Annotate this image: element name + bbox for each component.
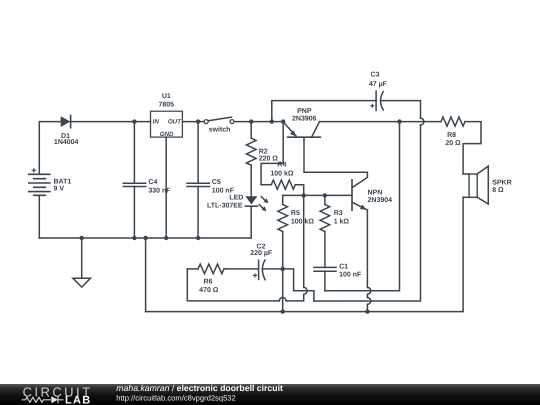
svg-text:BAT1: BAT1 bbox=[54, 178, 72, 185]
resistor R6 bbox=[187, 264, 258, 274]
resistor R5 bbox=[278, 195, 288, 311]
svg-text:SPKR: SPKR bbox=[492, 179, 511, 186]
wire ground rail bbox=[39, 237, 251, 239]
svg-text:PNP: PNP bbox=[297, 108, 312, 115]
switch SW1 bbox=[204, 117, 234, 124]
svg-text:C1: C1 bbox=[339, 263, 348, 270]
node R3 top junction bbox=[323, 193, 327, 197]
capacitor C5 bbox=[187, 122, 209, 238]
resistor R3 bbox=[320, 195, 330, 267]
svg-text:C3: C3 bbox=[371, 72, 380, 79]
svg-text:switch: switch bbox=[209, 126, 231, 134]
resistor R4 bbox=[261, 180, 304, 195]
wire bottom rail bbox=[146, 311, 464, 313]
svg-text:100 kΩ: 100 kΩ bbox=[291, 218, 315, 226]
wire PNP collector rail right bbox=[320, 121, 442, 123]
resistor R2 bbox=[246, 122, 256, 197]
regulator U1 7805 box bbox=[151, 111, 183, 138]
logo resistor glyph bbox=[22, 396, 64, 403]
wire PNP base to NPN collector bbox=[304, 137, 367, 188]
svg-text:R3: R3 bbox=[334, 210, 343, 217]
speaker SPKR bbox=[463, 166, 488, 204]
battery BAT1 bbox=[29, 168, 50, 238]
diode D1 bbox=[61, 116, 71, 128]
resistor R8 bbox=[441, 117, 465, 126]
svg-text:100 kΩ: 100 kΩ bbox=[270, 170, 294, 178]
node C4 bottom junction bbox=[132, 236, 136, 240]
svg-text:maha.kamran / electronic doorb: maha.kamran / electronic doorbell circui… bbox=[116, 383, 283, 393]
svg-text:9 V: 9 V bbox=[54, 186, 65, 193]
svg-text:8 Ω: 8 Ω bbox=[492, 187, 504, 194]
wire U1 GND to ground rail bbox=[165, 137, 167, 238]
node C2 R5 junction bbox=[281, 267, 285, 271]
node collector rail junction bbox=[397, 119, 401, 123]
svg-text:330 nF: 330 nF bbox=[148, 187, 171, 194]
svg-text:C5: C5 bbox=[212, 179, 221, 186]
node NPN emitter junction bbox=[365, 309, 369, 313]
wire C1 bottom to collector rail riser bbox=[325, 122, 400, 291]
capacitor C3 polarized bbox=[370, 90, 384, 111]
svg-text:C4: C4 bbox=[148, 179, 157, 186]
wire NPN base junction line bbox=[283, 194, 352, 196]
svg-text:220 Ω: 220 Ω bbox=[259, 155, 279, 162]
svg-text:100 nF: 100 nF bbox=[212, 187, 235, 194]
transistor Q2 NPN 2N3904 bbox=[352, 180, 371, 312]
capacitor C1 bbox=[314, 267, 336, 290]
node C3 branch junction bbox=[270, 119, 274, 123]
svg-text:R2: R2 bbox=[259, 148, 268, 155]
node riser junction bbox=[143, 236, 147, 240]
capacitor C4 bbox=[123, 122, 145, 238]
LED D2 LTL-307EE bbox=[245, 196, 268, 238]
wire D1 to U1 IN bbox=[71, 121, 151, 123]
wire R4 branch bbox=[261, 122, 283, 185]
svg-text:220 µF: 220 µF bbox=[250, 250, 273, 257]
svg-text:47 µF: 47 µF bbox=[369, 81, 388, 88]
svg-text:IN: IN bbox=[153, 119, 160, 126]
wire ground rail to bottom rail riser bbox=[145, 238, 147, 312]
svg-text:OUT: OUT bbox=[168, 119, 182, 126]
svg-text:2N3904: 2N3904 bbox=[368, 197, 393, 204]
wire C3 right to vertical with hop over top rail bbox=[314, 101, 424, 301]
node R4 top junction bbox=[281, 119, 285, 123]
wire C3 branch up and right bbox=[272, 101, 376, 122]
svg-text:R8: R8 bbox=[447, 132, 456, 139]
svg-text:2N3906: 2N3906 bbox=[292, 115, 317, 122]
svg-text:100 nF: 100 nF bbox=[339, 272, 362, 279]
wire R8 to speaker bbox=[463, 122, 481, 174]
node C5 top junction bbox=[196, 119, 200, 123]
transistor Q1 PNP 2N3906 bbox=[283, 122, 320, 138]
svg-text:http://circuitlab.com/c8vpgrd2: http://circuitlab.com/c8vpgrd2sq532 bbox=[116, 393, 235, 402]
ground symbol bbox=[73, 238, 91, 287]
wire U1 OUT to switch bbox=[182, 121, 204, 123]
node ground battery junction bbox=[80, 236, 84, 240]
wire switch to PNP emitter bbox=[234, 121, 283, 123]
node R4 bottom junction bbox=[302, 193, 306, 197]
footer bar bbox=[0, 384, 540, 405]
node U1 GND junction bbox=[164, 236, 168, 240]
node C5 bottom junction bbox=[196, 236, 200, 240]
svg-text:1N4004: 1N4004 bbox=[54, 139, 79, 146]
wire C2 right to C3 bottom line bbox=[263, 269, 314, 301]
svg-text:R6: R6 bbox=[204, 279, 213, 286]
svg-text:R5: R5 bbox=[291, 210, 300, 217]
svg-text:470 Ω: 470 Ω bbox=[199, 287, 219, 294]
svg-text:LTL-307EE: LTL-307EE bbox=[207, 203, 243, 210]
wire battery positive to top rail bbox=[39, 122, 61, 175]
node R5 bottom junction bbox=[281, 309, 285, 313]
svg-text:NPN: NPN bbox=[368, 190, 383, 197]
svg-text:LAB: LAB bbox=[65, 395, 92, 405]
node C4 top junction bbox=[132, 119, 136, 123]
svg-text:LED: LED bbox=[229, 195, 243, 202]
svg-text:U1: U1 bbox=[162, 93, 171, 100]
node R2 top junction bbox=[249, 119, 253, 123]
svg-text:7805: 7805 bbox=[159, 101, 175, 108]
svg-text:20 Ω: 20 Ω bbox=[445, 140, 461, 147]
wire net B vertical with hop bbox=[187, 195, 307, 301]
svg-text:R4: R4 bbox=[277, 162, 286, 169]
capacitor C2 polarized bbox=[253, 259, 266, 280]
svg-text:1 kΩ: 1 kΩ bbox=[334, 218, 350, 226]
wire speaker bottom to bottom rail bbox=[462, 197, 464, 311]
